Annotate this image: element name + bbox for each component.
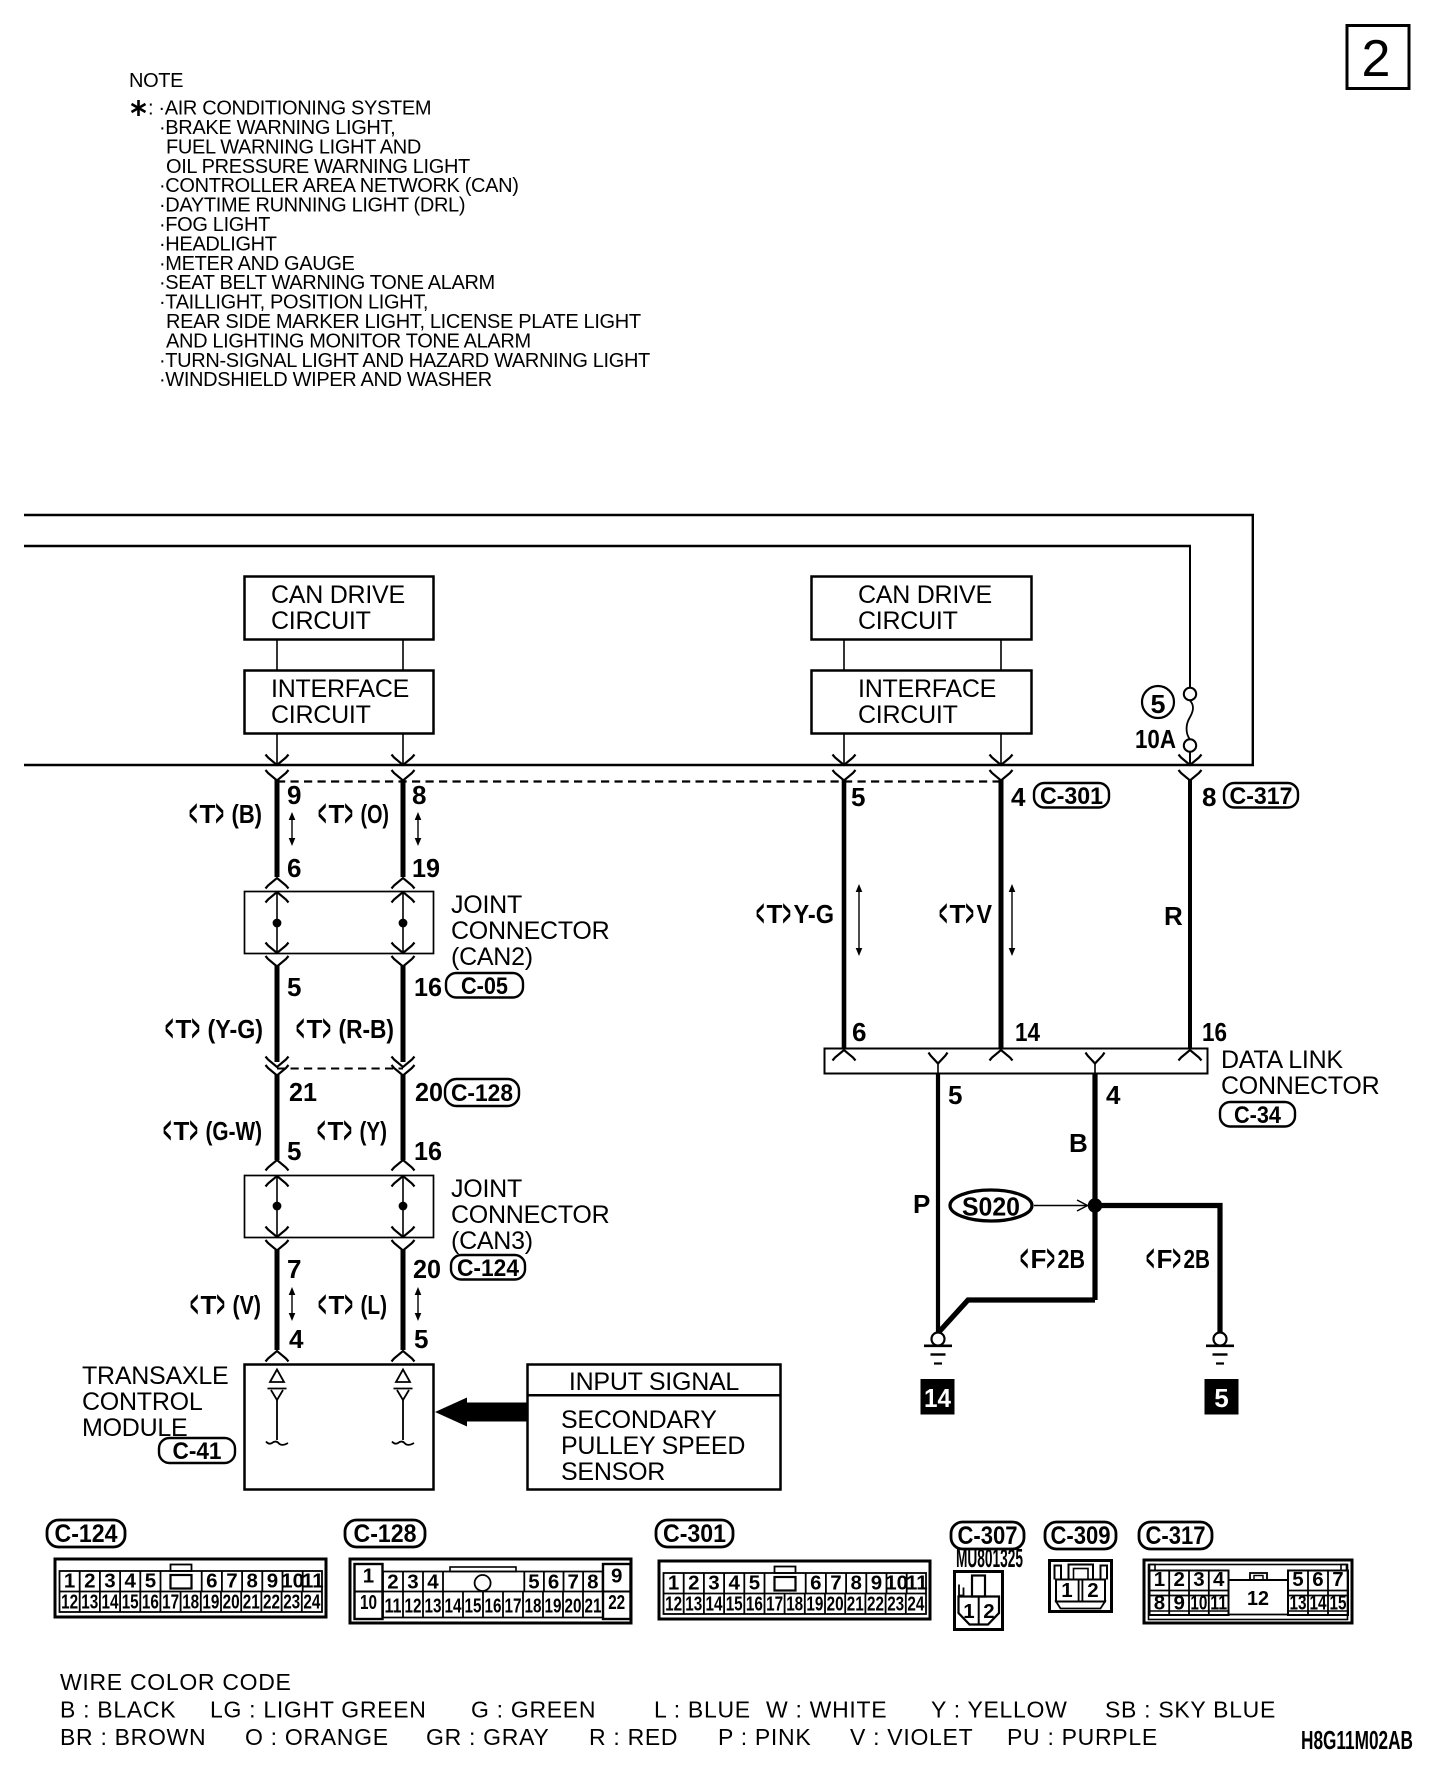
joint CAN3 entry mark 2a	[392, 1160, 415, 1171]
svg-text:8: 8	[246, 1570, 257, 1593]
svg-text:1: 1	[64, 1570, 75, 1593]
svg-text:SB : SKY BLUE: SB : SKY BLUE	[1105, 1697, 1276, 1723]
wire: stub right 1	[843, 640, 845, 670]
twist arrow right 2	[1009, 884, 1016, 956]
svg-text:2: 2	[1362, 30, 1391, 88]
svg-text:23: 23	[283, 1591, 300, 1614]
svg-text:C-124: C-124	[55, 1520, 118, 1548]
svg-text:>: >	[966, 893, 974, 935]
svg-text:INPUT SIGNAL: INPUT SIGNAL	[569, 1368, 740, 1396]
svg-text:16: 16	[142, 1591, 159, 1614]
svg-text:CONNECTOR: CONNECTOR	[1221, 1072, 1379, 1100]
svg-text:18: 18	[525, 1595, 542, 1618]
TCM entry mark 2	[392, 1351, 415, 1362]
svg-text:>: >	[190, 1110, 198, 1152]
svg-text:5: 5	[1214, 1383, 1228, 1413]
svg-text:CAN DRIVE: CAN DRIVE	[271, 581, 405, 609]
svg-text:·WINDSHIELD WIPER AND WASHER: ·WINDSHIELD WIPER AND WASHER	[159, 369, 492, 391]
svg-text:G : GREEN: G : GREEN	[471, 1697, 596, 1723]
svg-text:NOTE: NOTE	[129, 70, 183, 92]
svg-text:11: 11	[1210, 1592, 1227, 1615]
svg-text:2: 2	[84, 1570, 95, 1593]
wire: battery bus top line	[24, 514, 1254, 517]
note asterisk	[132, 100, 146, 116]
svg-text:7: 7	[287, 1254, 301, 1284]
svg-text:C-128: C-128	[354, 1520, 417, 1548]
svg-text:WIRE COLOR CODE: WIRE COLOR CODE	[60, 1669, 292, 1695]
svg-text:F: F	[1031, 1244, 1047, 1274]
joint connector (CAN2) box	[245, 892, 434, 954]
svg-text:21: 21	[243, 1591, 260, 1614]
connector mark below bus at x=277	[266, 770, 289, 781]
joint CAN2 exit mark 2b	[392, 956, 415, 967]
wire: stub right 2	[1000, 640, 1002, 670]
svg-text:19: 19	[806, 1593, 823, 1616]
svg-text:MU801325: MU801325	[956, 1543, 1023, 1573]
svg-text:4: 4	[1213, 1568, 1225, 1591]
svg-text:2: 2	[1087, 1579, 1098, 1602]
twist arrow left pair 3	[289, 1287, 296, 1321]
svg-text:(G-W): (G-W)	[206, 1116, 263, 1146]
wire <T>Y-G segment right	[842, 780, 847, 1048]
svg-text:18: 18	[786, 1593, 803, 1616]
connector pinout C-124	[55, 1559, 326, 1617]
input signal box	[528, 1365, 781, 1490]
svg-text:10: 10	[360, 1591, 377, 1614]
transaxle control module box C-41	[245, 1365, 434, 1490]
connector mark above bus at x=1001	[990, 755, 1013, 766]
svg-text:T: T	[176, 1014, 192, 1044]
box: CAN drive circuit (left)	[245, 577, 434, 640]
svg-text:<: <	[756, 893, 764, 935]
svg-text:T: T	[329, 1290, 345, 1320]
svg-text:8: 8	[1202, 782, 1216, 812]
joint CAN3 entry mark 1a	[266, 1160, 289, 1171]
connector mark below bus at x=1001	[990, 770, 1013, 781]
svg-text:3: 3	[1193, 1568, 1204, 1591]
svg-text:T: T	[950, 899, 966, 929]
svg-text:9: 9	[1173, 1592, 1184, 1615]
connector label C-317 top	[1224, 783, 1298, 810]
svg-text:C-124: C-124	[457, 1255, 520, 1282]
wire: stub left 1	[276, 640, 278, 670]
C-128 inline mark 2a	[392, 1057, 415, 1068]
page number box 2	[1347, 26, 1409, 89]
svg-text:(V): (V)	[233, 1290, 262, 1320]
svg-text:9: 9	[287, 780, 301, 810]
svg-text:2B: 2B	[1058, 1244, 1086, 1274]
svg-text:14: 14	[706, 1593, 723, 1616]
connector pinout C-301	[659, 1561, 930, 1619]
box: CAN drive circuit (right)	[812, 577, 1032, 640]
twist arrow right 1	[856, 884, 863, 956]
svg-text:JOINT: JOINT	[451, 1175, 522, 1203]
svg-text:>: >	[344, 1110, 352, 1152]
svg-text:C-301: C-301	[663, 1520, 726, 1548]
svg-text:C-34: C-34	[1234, 1102, 1282, 1129]
wire R segment right	[1188, 780, 1192, 1048]
svg-text:4: 4	[289, 1324, 304, 1354]
svg-text:>: >	[323, 1008, 331, 1050]
svg-text:T: T	[767, 899, 783, 929]
svg-text:2: 2	[1173, 1568, 1184, 1591]
svg-text:JOINT: JOINT	[451, 891, 522, 919]
svg-text:6: 6	[548, 1571, 559, 1594]
svg-text:<: <	[189, 793, 197, 835]
wire <T>(Y) segment	[401, 1075, 406, 1160]
svg-text:14: 14	[1015, 1017, 1040, 1047]
dlc entry mark 2	[990, 1050, 1013, 1061]
svg-text:1: 1	[668, 1572, 679, 1595]
wire: module bottom bus line	[24, 764, 1254, 767]
svg-text:9: 9	[871, 1572, 882, 1595]
svg-text:LG : LIGHT GREEN: LG : LIGHT GREEN	[210, 1697, 427, 1723]
svg-text:12: 12	[61, 1591, 78, 1614]
wire B segment	[1092, 1073, 1097, 1300]
connector pinout C-309	[1050, 1561, 1112, 1612]
fuse number circle 5	[1142, 686, 1174, 718]
svg-text:17: 17	[505, 1595, 522, 1618]
svg-text:23: 23	[887, 1593, 904, 1616]
svg-text:CONNECTOR: CONNECTOR	[451, 1201, 609, 1229]
svg-text:<: <	[318, 1284, 326, 1326]
svg-text:21: 21	[585, 1595, 602, 1618]
svg-text:>: >	[216, 793, 224, 835]
svg-text:R : RED: R : RED	[589, 1724, 678, 1750]
box: interface circuit (right)	[812, 671, 1032, 734]
joint CAN2 exit mark 2a	[392, 943, 415, 954]
connector mark below bus at x=844	[833, 770, 856, 781]
svg-text:5: 5	[287, 1136, 301, 1166]
svg-text:10: 10	[281, 1570, 304, 1593]
svg-text:8: 8	[587, 1571, 598, 1594]
svg-text:<: <	[296, 1008, 304, 1050]
joint CAN2 entry mark 2b	[392, 892, 415, 903]
svg-text:6: 6	[852, 1017, 866, 1047]
svg-text:5: 5	[1151, 689, 1166, 719]
connector title C-124	[47, 1520, 125, 1548]
wire <T>(Y-G) segment	[275, 966, 280, 1062]
svg-text:19: 19	[202, 1591, 219, 1614]
svg-text:3: 3	[104, 1570, 115, 1593]
connector mark above bus at x=1190	[1179, 755, 1202, 766]
svg-text:4: 4	[124, 1570, 136, 1593]
svg-text:11: 11	[385, 1595, 402, 1618]
connector pinout C-128	[350, 1559, 631, 1623]
C-128 inline mark 2b	[392, 1065, 415, 1076]
svg-text:INTERFACE: INTERFACE	[271, 675, 409, 703]
dlc exit mark P	[929, 1053, 948, 1064]
connector label C-128 inline	[445, 1079, 519, 1107]
svg-text:B: B	[1069, 1128, 1088, 1158]
svg-text:P: P	[913, 1189, 930, 1219]
svg-text:C-317: C-317	[1146, 1522, 1206, 1550]
wire: left wire 2 interface to bus	[402, 734, 404, 765]
svg-text:1: 1	[963, 1600, 974, 1623]
joint CAN2 junction dots	[273, 919, 282, 928]
svg-text:(CAN2): (CAN2)	[451, 943, 533, 971]
svg-text:PU : PURPLE: PU : PURPLE	[1007, 1724, 1158, 1750]
svg-text:2B: 2B	[1184, 1244, 1211, 1274]
svg-text:10: 10	[885, 1572, 908, 1595]
svg-text:P : PINK: P : PINK	[718, 1724, 811, 1750]
connector title C-301	[656, 1520, 733, 1548]
svg-text:<: <	[190, 1284, 198, 1326]
joint CAN2 exit mark 1b	[266, 956, 289, 967]
connector title C-309	[1045, 1522, 1116, 1550]
wire CAN-L <T>(O) segment	[401, 780, 406, 877]
svg-text:L : BLUE: L : BLUE	[654, 1697, 751, 1723]
svg-text:3: 3	[708, 1572, 719, 1595]
wire <T>(V) segment	[275, 1250, 280, 1350]
svg-text:(CAN3): (CAN3)	[451, 1227, 533, 1255]
svg-text:(O): (O)	[361, 799, 390, 829]
svg-text:3: 3	[407, 1571, 418, 1594]
wire <T>(L) segment	[401, 1250, 406, 1350]
svg-text:>: >	[1047, 1238, 1055, 1280]
svg-text:BR : BROWN: BR : BROWN	[60, 1724, 206, 1750]
svg-text:T: T	[307, 1014, 323, 1044]
svg-text:5: 5	[948, 1080, 962, 1110]
svg-text:<: <	[1146, 1238, 1154, 1280]
wire <T>(G-W) segment	[275, 1075, 280, 1160]
svg-text:C-41: C-41	[173, 1438, 222, 1465]
svg-text:V: V	[977, 899, 993, 929]
svg-text:Y : YELLOW: Y : YELLOW	[931, 1697, 1068, 1723]
svg-text:5: 5	[287, 972, 301, 1002]
svg-text:16: 16	[746, 1593, 763, 1616]
svg-text:4: 4	[427, 1571, 439, 1594]
svg-text:>: >	[192, 1008, 200, 1050]
svg-text:F: F	[1157, 1244, 1173, 1274]
svg-text:>: >	[217, 1284, 225, 1326]
svg-text:16: 16	[414, 1136, 442, 1166]
twist arrow left pair 1	[289, 812, 296, 846]
connector label C-301 top	[1034, 783, 1109, 810]
svg-text:14: 14	[445, 1595, 462, 1618]
svg-text:14: 14	[924, 1383, 952, 1413]
svg-text:6: 6	[1312, 1568, 1323, 1591]
svg-text:22: 22	[867, 1593, 884, 1616]
svg-text:17: 17	[162, 1591, 179, 1614]
svg-text:16: 16	[485, 1595, 502, 1618]
svg-text:<: <	[1020, 1238, 1028, 1280]
connector mark above bus at x=403	[392, 755, 415, 766]
svg-text:5: 5	[749, 1572, 760, 1595]
svg-text:S020: S020	[962, 1192, 1020, 1222]
wire: B down to ground jog	[938, 1300, 1095, 1333]
svg-text:C-301: C-301	[1040, 783, 1103, 810]
svg-text:15: 15	[122, 1591, 139, 1614]
svg-text:16: 16	[1202, 1017, 1227, 1047]
joint CAN3 exit mark 1a	[266, 1227, 289, 1238]
svg-text:GR : GRAY: GR : GRAY	[426, 1724, 549, 1750]
joint CAN3 entry mark 2b	[392, 1176, 415, 1187]
splice symbol S020	[950, 1190, 1032, 1221]
svg-text:>: >	[1173, 1238, 1181, 1280]
svg-text:5: 5	[528, 1571, 539, 1594]
svg-text:7: 7	[567, 1571, 578, 1594]
svg-text:6: 6	[206, 1570, 217, 1593]
ground number box 14	[921, 1379, 955, 1415]
svg-text:4: 4	[728, 1572, 740, 1595]
svg-text:TRANSAXLE: TRANSAXLE	[82, 1362, 228, 1390]
svg-text:20: 20	[565, 1595, 582, 1618]
joint CAN2 exit mark 1a	[266, 943, 289, 954]
svg-text:2: 2	[387, 1571, 398, 1594]
svg-text:8: 8	[1154, 1592, 1165, 1615]
svg-text:7: 7	[226, 1570, 237, 1593]
svg-text:CIRCUIT: CIRCUIT	[271, 701, 371, 729]
svg-text:T: T	[174, 1116, 190, 1146]
svg-text:C-05: C-05	[461, 973, 508, 1000]
wire: second bus line	[24, 545, 1191, 548]
wire: stub left 2	[402, 640, 404, 670]
wire: branch to right ground	[1095, 1206, 1220, 1334]
dlc entry mark 1	[833, 1050, 856, 1061]
svg-text:>: >	[783, 893, 791, 935]
joint CAN3 junction dots	[273, 1202, 282, 1211]
connector mark above bus at x=277	[266, 755, 289, 766]
svg-text:22: 22	[263, 1591, 280, 1614]
svg-text:24: 24	[907, 1593, 924, 1616]
svg-text:10: 10	[1190, 1592, 1207, 1615]
ground symbol right	[1206, 1333, 1234, 1364]
joint CAN3 entry mark 1b	[266, 1176, 289, 1187]
svg-text:21: 21	[847, 1593, 864, 1616]
connector label C-05	[446, 973, 523, 1000]
svg-text:21: 21	[289, 1077, 317, 1107]
fuse F5 10A	[1184, 688, 1196, 700]
svg-text:C-317: C-317	[1230, 783, 1293, 810]
svg-text:CONNECTOR: CONNECTOR	[451, 917, 609, 945]
connector title C-128	[345, 1520, 425, 1548]
svg-text:1: 1	[1154, 1568, 1165, 1591]
svg-text:DATA LINK: DATA LINK	[1221, 1046, 1343, 1074]
joint CAN3 exit mark 2a	[392, 1227, 415, 1238]
svg-text:19: 19	[412, 853, 440, 883]
connector label C-124 inline	[451, 1255, 525, 1282]
svg-text:13: 13	[1290, 1592, 1307, 1615]
svg-text:>: >	[345, 793, 353, 835]
svg-text:<: <	[318, 793, 326, 835]
svg-text:B : BLACK: B : BLACK	[60, 1697, 176, 1723]
svg-text:12: 12	[405, 1595, 422, 1618]
wire P segment	[936, 1073, 940, 1333]
TCM input pin symbol at x=403	[392, 1370, 414, 1445]
svg-text:(L): (L)	[361, 1290, 388, 1320]
joint CAN3 exit mark 1b	[266, 1240, 289, 1251]
svg-text:R: R	[1164, 901, 1183, 931]
svg-text:1: 1	[363, 1565, 374, 1588]
svg-text:CIRCUIT: CIRCUIT	[858, 701, 958, 729]
joint CAN3 exit mark 2b	[392, 1240, 415, 1251]
ground number box 5	[1205, 1379, 1239, 1415]
svg-text:SECONDARY: SECONDARY	[561, 1406, 717, 1434]
svg-text:19: 19	[545, 1595, 562, 1618]
svg-text:T: T	[200, 799, 216, 829]
svg-text:13: 13	[81, 1591, 98, 1614]
wire: right wire 1 interface to bus	[843, 734, 845, 765]
svg-text:20: 20	[223, 1591, 240, 1614]
svg-text:12: 12	[1247, 1587, 1269, 1610]
twist arrow left pair 2	[415, 812, 422, 846]
svg-text:9: 9	[611, 1565, 622, 1588]
svg-text:V : VIOLET: V : VIOLET	[850, 1724, 973, 1750]
svg-text:C-128: C-128	[451, 1080, 513, 1107]
svg-text:18: 18	[182, 1591, 199, 1614]
twist arrow left pair 4	[415, 1287, 422, 1321]
svg-text:8: 8	[412, 780, 426, 810]
svg-text:O : ORANGE: O : ORANGE	[245, 1724, 389, 1750]
wire: right frame vertical	[1252, 515, 1254, 765]
svg-text:6: 6	[287, 853, 301, 883]
svg-text:7: 7	[1332, 1568, 1343, 1591]
note text	[129, 70, 650, 391]
joint connector (CAN3) box	[245, 1176, 434, 1238]
svg-text:4: 4	[1106, 1080, 1121, 1110]
svg-text:T: T	[328, 1116, 344, 1146]
ground symbol left	[924, 1333, 952, 1364]
svg-text:(Y): (Y)	[360, 1116, 388, 1146]
svg-text:CAN DRIVE: CAN DRIVE	[858, 581, 992, 609]
svg-text:(R-B): (R-B)	[339, 1014, 395, 1044]
svg-text:15: 15	[465, 1595, 482, 1618]
svg-text:PULLEY SPEED: PULLEY SPEED	[561, 1432, 745, 1460]
svg-text:8: 8	[850, 1572, 861, 1595]
svg-text:14: 14	[102, 1591, 119, 1614]
svg-text:W : WHITE: W : WHITE	[766, 1697, 887, 1723]
svg-text:20: 20	[415, 1077, 443, 1107]
svg-text:5: 5	[414, 1324, 428, 1354]
svg-text:12: 12	[665, 1593, 682, 1616]
TCM entry mark 1	[266, 1351, 289, 1362]
svg-text:1: 1	[1061, 1579, 1072, 1602]
connector pinout C-307	[955, 1572, 1003, 1630]
svg-text:<: <	[163, 1110, 171, 1152]
wire <T>V segment right	[999, 780, 1004, 1048]
svg-text:13: 13	[425, 1595, 442, 1618]
svg-text:INTERFACE: INTERFACE	[858, 675, 996, 703]
svg-text:4: 4	[1011, 782, 1026, 812]
dlc exit mark B	[1086, 1053, 1105, 1064]
svg-text:11: 11	[302, 1570, 324, 1593]
svg-text:Y-G: Y-G	[794, 899, 835, 929]
svg-text:<: <	[939, 893, 947, 935]
wire <T>(R-B) segment	[401, 966, 406, 1062]
svg-text:9: 9	[267, 1570, 278, 1593]
svg-text:14: 14	[1310, 1592, 1327, 1615]
svg-text:7: 7	[830, 1572, 841, 1595]
svg-text:15: 15	[1330, 1592, 1347, 1615]
svg-text:C-309: C-309	[1051, 1522, 1111, 1550]
svg-text:6: 6	[810, 1572, 821, 1595]
svg-text:T: T	[201, 1290, 217, 1320]
joint CAN2 entry mark 2a	[392, 878, 415, 889]
svg-text:<: <	[165, 1008, 173, 1050]
svg-text:(B): (B)	[232, 799, 263, 829]
connector mark below bus at x=403	[392, 770, 415, 781]
connector mark above bus at x=844	[833, 755, 856, 766]
connector pinout C-317	[1144, 1560, 1352, 1623]
wire color code legend	[60, 1669, 1276, 1750]
svg-text:CIRCUIT: CIRCUIT	[858, 607, 958, 635]
wire CAN-H <T>(B) segment	[275, 780, 280, 877]
connector label C-34	[1220, 1102, 1295, 1129]
TCM input pin symbol at x=277	[266, 1370, 288, 1445]
dashed harness boundary line (C-128)	[277, 1068, 403, 1070]
svg-text:>: >	[345, 1284, 353, 1326]
